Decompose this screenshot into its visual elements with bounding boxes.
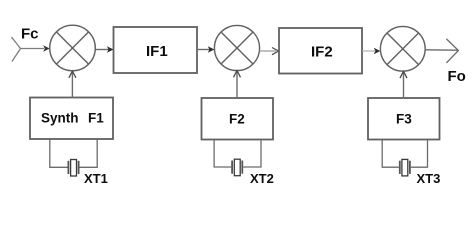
svg-text:Fo: Fo: [448, 68, 466, 85]
svg-text:IF2: IF2: [311, 44, 333, 61]
svg-text:F1: F1: [88, 110, 104, 125]
svg-text:F3: F3: [396, 112, 412, 127]
svg-text:Fc: Fc: [21, 25, 39, 42]
svg-text:IF1: IF1: [146, 43, 168, 60]
svg-text:XT2: XT2: [250, 171, 274, 186]
svg-text:XT1: XT1: [84, 171, 108, 186]
svg-text:F2: F2: [229, 112, 245, 127]
svg-text:Synth: Synth: [41, 110, 79, 125]
svg-text:XT3: XT3: [417, 171, 441, 186]
